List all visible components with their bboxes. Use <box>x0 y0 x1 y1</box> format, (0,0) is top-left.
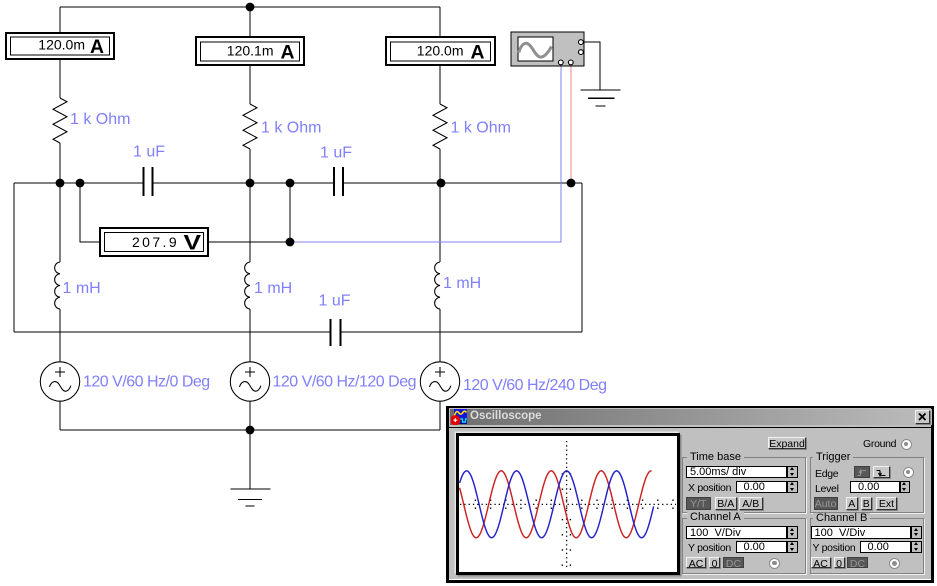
wire scope channel A (red) <box>570 66 572 183</box>
ext button <box>876 497 897 510</box>
voltmeter M4 <box>100 228 208 256</box>
wire R1 to bus <box>59 143 61 183</box>
channel a y position field <box>736 541 787 554</box>
svg-text:120 V/60 Hz/120 Deg: 120 V/60 Hz/120 Deg <box>273 374 417 391</box>
oscilloscope window title text <box>470 410 542 422</box>
oscilloscope window icon <box>451 409 468 425</box>
node bus-R1 junction <box>56 179 65 188</box>
wire V3 to bottom bus <box>439 401 441 430</box>
wire scope ground lead <box>584 42 600 90</box>
wire bus to L1 <box>59 183 61 262</box>
resistor R2 <box>243 104 257 149</box>
wire ammeter2 top <box>249 7 251 36</box>
svg-text:1 uF: 1 uF <box>319 293 351 310</box>
waveform channel B blue <box>460 471 654 538</box>
auto button <box>814 497 838 510</box>
trigger b button <box>861 497 873 510</box>
label C1 value <box>133 144 165 161</box>
node top bus junction <box>246 3 255 12</box>
node bus-scope-red junction <box>567 179 576 188</box>
wire voltmeter right lead <box>209 241 290 243</box>
wire middle bus segment 1 <box>14 182 143 184</box>
label C2 value <box>320 145 352 162</box>
node bus-voltmeter junction <box>76 179 85 188</box>
wire bottom bus <box>60 429 440 431</box>
time base spinner <box>787 466 798 479</box>
svg-text:1 k Ohm: 1 k Ohm <box>70 111 130 128</box>
wire ground stem bottom <box>249 430 251 489</box>
svg-text:1 uF: 1 uF <box>133 144 165 161</box>
x position label <box>688 482 731 494</box>
channel b 0 button <box>834 557 845 569</box>
svg-text:A: A <box>90 36 104 58</box>
channel b y position spinner <box>911 541 922 554</box>
svg-text:1 mH: 1 mH <box>63 280 101 297</box>
time base group label <box>687 452 744 463</box>
ground label <box>863 438 896 450</box>
AC source V2 <box>230 362 269 401</box>
level label <box>815 483 839 495</box>
edge label <box>815 468 838 480</box>
trigger a button <box>846 497 859 510</box>
channel a y position label <box>688 542 731 554</box>
inductor L2 <box>245 262 250 309</box>
time base group box <box>682 457 807 513</box>
ammeter M1 <box>6 33 114 59</box>
edge falling button <box>873 466 891 478</box>
svg-text:A: A <box>471 41 485 63</box>
trigger group box <box>810 457 924 513</box>
svg-text:207.9: 207.9 <box>132 234 179 250</box>
wire R2 to bus <box>249 149 251 183</box>
channel a 0 button <box>709 557 720 569</box>
label R2 value <box>261 120 321 137</box>
svg-text:120 V/60 Hz/0 Deg: 120 V/60 Hz/0 Deg <box>83 374 210 391</box>
svg-text:1 mH: 1 mH <box>443 275 481 292</box>
a/b button <box>739 497 763 510</box>
oscilloscope window bottom border <box>449 579 931 580</box>
wire R3 to bus <box>439 149 441 183</box>
svg-text:120 V/60 Hz/240 Deg: 120 V/60 Hz/240 Deg <box>463 377 607 394</box>
label R1 value <box>70 111 130 128</box>
level spinner <box>900 481 911 494</box>
trigger radio <box>903 467 914 478</box>
wire L3 to source V3 <box>439 309 441 362</box>
wire scope channel B (blue) <box>290 66 561 242</box>
wire V2 to bottom bus <box>249 401 251 430</box>
channel b dc button <box>847 557 868 569</box>
svg-text:A: A <box>281 41 295 63</box>
wire ammeter3 top <box>439 7 441 36</box>
level field <box>850 481 900 494</box>
edge rising button <box>854 466 870 478</box>
label R3 value <box>451 120 511 137</box>
node voltmeter-blue junction <box>286 238 295 247</box>
capacitor C1 <box>143 167 154 196</box>
channel a dc button <box>723 557 744 569</box>
wire ammeter1 to R1 <box>59 60 61 98</box>
node bus-R2 junction <box>246 179 255 188</box>
x position field <box>736 481 787 494</box>
channel a ac button <box>686 557 706 569</box>
channel b group label <box>813 513 870 524</box>
ground radio <box>901 439 912 450</box>
resistor R1 <box>53 98 67 143</box>
wire middle bus segment 3 <box>344 182 582 184</box>
channel a y position spinner <box>787 541 798 554</box>
trigger group label <box>813 452 853 463</box>
svg-text:V: V <box>184 232 202 255</box>
ground schematic bottom <box>230 489 270 506</box>
channel a group label <box>687 512 744 523</box>
inductor L3 <box>435 262 440 309</box>
oscilloscope window close button <box>915 410 931 424</box>
oscilloscope XSC1 icon <box>511 32 584 66</box>
ground oscilloscope <box>581 90 621 106</box>
channel b scale spinner <box>911 526 922 539</box>
channel b ac button <box>811 557 831 569</box>
svg-text:120.0m: 120.0m <box>417 43 464 59</box>
svg-text:1 k Ohm: 1 k Ohm <box>261 120 321 137</box>
oscilloscope display screen <box>456 433 680 575</box>
oscilloscope window title bar <box>450 409 932 425</box>
wire L1 to source V1 <box>59 309 61 362</box>
label L2 value <box>254 280 292 297</box>
wire ammeter1 top <box>59 7 61 32</box>
wire left loop vertical <box>13 183 15 332</box>
wire bus to L3 <box>439 183 441 262</box>
wire middle bus segment 2 <box>154 182 333 184</box>
node bus-R3 junction <box>437 179 446 188</box>
inductor L1 <box>55 262 60 309</box>
svg-text:1 uF: 1 uF <box>320 145 352 162</box>
wire top bus <box>60 6 440 8</box>
waveform channel A red <box>460 471 652 538</box>
svg-text:120.0m: 120.0m <box>38 37 85 53</box>
channel a radio <box>769 558 780 569</box>
channel b scale field <box>811 526 912 539</box>
wire ammeter3 to R3 <box>439 66 441 104</box>
label V2 value <box>273 374 417 391</box>
oscilloscope window title separator <box>449 427 932 429</box>
label V1 value <box>83 374 210 391</box>
wire ammeter2 to R2 <box>249 66 251 104</box>
y/t button <box>686 497 711 510</box>
label V3 value <box>463 377 607 394</box>
AC source V3 <box>420 362 459 401</box>
wire bottom loop segment 2 <box>341 331 582 333</box>
wire L2 to source V2 <box>249 309 251 362</box>
label L1 value <box>63 280 101 297</box>
capacitor C2 <box>333 167 344 196</box>
channel b radio <box>889 558 900 569</box>
channel a group box <box>682 518 807 575</box>
graticule horizontal axis <box>460 503 676 505</box>
graticule vertical axis <box>566 441 568 569</box>
b/a button <box>715 497 738 510</box>
wire bus to L2 <box>249 183 251 262</box>
wire bottom loop segment 1 <box>14 331 330 333</box>
time base value field <box>686 466 787 479</box>
svg-text:120.1m: 120.1m <box>227 43 274 59</box>
ammeter M3 <box>386 37 495 65</box>
label C3 value <box>319 293 351 310</box>
wire node to voltmeter lead <box>289 183 291 242</box>
label L3 value <box>443 275 481 292</box>
channel a scale field <box>686 526 787 539</box>
channel a scale spinner <box>787 526 798 539</box>
ammeter M2 <box>196 37 304 65</box>
resistor R3 <box>433 104 447 149</box>
AC source V1 <box>40 362 79 401</box>
channel b y position field <box>860 541 911 554</box>
node bottom bus ground junction <box>246 426 255 435</box>
node bus right-of-R2 junction <box>286 179 295 188</box>
wire voltmeter left lead <box>80 183 99 242</box>
channel b group box <box>810 518 924 575</box>
graticule division ticks <box>475 473 674 566</box>
wire right loop vertical <box>581 183 583 332</box>
svg-text:1 mH: 1 mH <box>254 280 292 297</box>
capacitor C3 <box>330 319 342 346</box>
x position spinner <box>787 481 798 494</box>
channel b y position label <box>813 542 856 554</box>
expand button <box>768 437 806 449</box>
wire V1 to bottom bus <box>59 401 61 430</box>
svg-text:1 k Ohm: 1 k Ohm <box>451 120 511 137</box>
